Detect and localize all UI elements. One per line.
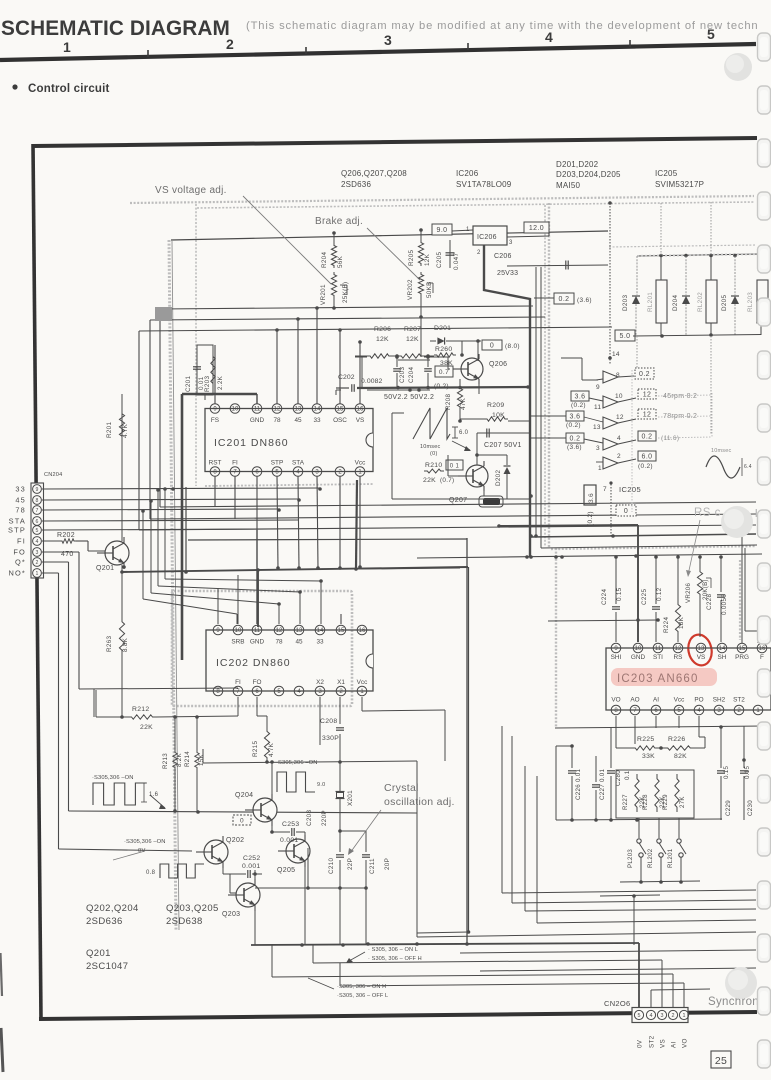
wire IC202 pin1 Vcc elbow [361, 697, 363, 711]
wire CN206 ST2 riser [650, 990, 652, 1008]
svg-text:(This schematic diagram may be: (This schematic diagram may be modified … [246, 20, 759, 32]
wire bus y331 [139, 327, 612, 331]
wire Q205 emitter down to y888 [304, 865, 306, 888]
svg-text:1: 1 [683, 1013, 686, 1019]
svg-text:IC206: IC206 [456, 169, 479, 178]
wire IC202 pin10 riser [237, 575, 239, 624]
wire C201 to IC201 pin9 [204, 395, 206, 400]
comparator IC205 triangle pin12 [603, 417, 618, 429]
svg-text:· S305, 306 – ON L: · S305, 306 – ON L [368, 947, 418, 953]
wire thick IC206 pin2 down [484, 245, 530, 557]
gray guide under IC201 [205, 484, 374, 486]
svg-text:4.7K: 4.7K [122, 423, 129, 438]
svg-text:C211: C211 [369, 858, 376, 874]
IC202 pin 15 [336, 625, 346, 635]
svg-text:VR206: VR206 [685, 583, 692, 603]
wire VR201 bottom [333, 298, 335, 309]
resistor R224 18K [677, 557, 679, 600]
svg-text:(0.2): (0.2) [571, 402, 586, 409]
svg-text:4: 4 [296, 470, 300, 476]
IC203 pin 13 VS [696, 643, 706, 653]
wire x417 drop [416, 761, 418, 937]
resistor box R227 R228 R229 [616, 770, 694, 818]
capacitor C280 0.1 [610, 728, 612, 768]
connector CN206 pin 4 ST2 [646, 1010, 655, 1019]
switch PL203 [638, 818, 640, 838]
wire CN204 pin7 78 [42, 509, 279, 510]
svg-text:1: 1 [63, 39, 71, 55]
IC202 pin 11 GND [252, 625, 262, 635]
svg-text:Vcc: Vcc [674, 697, 685, 704]
connector CN204 pin 8 45 [33, 496, 42, 505]
wire x634 drop [633, 896, 635, 945]
svg-text:STI: STI [653, 654, 663, 661]
svg-text:D201,D202: D201,D202 [556, 160, 599, 169]
wire x366 drop to bus [365, 888, 367, 944]
svg-text:(0.2): (0.2) [638, 463, 653, 470]
resistor R228 22K [655, 774, 659, 812]
gray guide line top [130, 196, 754, 203]
svg-text:Vcc: Vcc [355, 460, 366, 467]
wire triangle stubs [596, 379, 603, 380]
node y811 x198 [196, 810, 200, 814]
IC201 pin 2 [335, 467, 345, 477]
value box 9.0 [432, 224, 452, 235]
wire box input y416 [530, 415, 566, 417]
svg-text:8: 8 [213, 470, 217, 476]
svg-text:C225: C225 [641, 589, 648, 605]
svg-text:C210: C210 [328, 858, 335, 874]
wire vertical x536 [535, 267, 537, 536]
svg-text:ST2: ST2 [649, 1035, 656, 1048]
transistor Q201 [105, 541, 129, 565]
wire thick Q201 emitter rail y571 [121, 567, 468, 572]
svg-text:1: 1 [36, 571, 39, 577]
frame top border [33, 138, 757, 146]
transistor Q205 [286, 839, 310, 863]
IC203 pin 10 GND [633, 643, 643, 653]
svg-text:C227 0.01: C227 0.01 [599, 768, 606, 800]
node branch dot x173 [171, 487, 175, 491]
wire vertical x361 IC201 pin1 to IC202 [359, 476, 361, 568]
svg-text:Vcc: Vcc [357, 679, 368, 686]
diode D203 [636, 256, 638, 295]
svg-text:FO: FO [253, 679, 262, 686]
svg-text:0.1: 0.1 [624, 770, 631, 780]
wire IC206 to 12.0 corner [507, 236, 549, 237]
svg-text:RL201: RL201 [667, 848, 674, 868]
svg-text:C202: C202 [338, 374, 355, 381]
svg-text:5: 5 [277, 689, 281, 695]
IC203 pin 15 PRG [737, 643, 747, 653]
wire Q201 emitter node [122, 565, 126, 569]
wire IC202 top rail [211, 629, 369, 631]
svg-text:R215: R215 [252, 741, 259, 757]
svg-text:11: 11 [254, 407, 261, 413]
wire comp top rail y557 [417, 554, 762, 558]
svg-text:2: 2 [672, 1013, 675, 1019]
IC202 pin 4 [294, 686, 304, 696]
transistor Q206 [461, 358, 483, 380]
svg-text:2: 2 [226, 36, 234, 52]
svg-text:6.0: 6.0 [642, 454, 653, 461]
wire IC202 pin11 riser thick [256, 530, 258, 624]
resistor RL201 box [660, 256, 662, 280]
svg-text:14: 14 [612, 351, 620, 358]
svg-text:SRB: SRB [231, 639, 244, 646]
wire CN206 drop 0V [638, 943, 640, 1008]
wire staircase x151 [150, 500, 152, 593]
svg-text:45: 45 [295, 639, 303, 646]
svg-text:R207: R207 [404, 326, 421, 333]
svg-text:Crystal: Crystal [384, 782, 419, 794]
connector CN204 body [31, 483, 44, 578]
resistor RL203 box [757, 280, 768, 323]
svg-text:2.2K: 2.2K [217, 375, 224, 390]
svg-text:C252: C252 [243, 855, 260, 862]
svg-text:C253: C253 [282, 821, 299, 828]
connector CN206 pin 5 0V [634, 1010, 643, 1019]
svg-text:4: 4 [297, 689, 301, 695]
svg-text:2: 2 [36, 560, 39, 566]
svg-text:D204: D204 [672, 295, 679, 311]
svg-text:15: 15 [337, 407, 344, 413]
connector CN204 pin 6 STA [33, 517, 42, 526]
svg-text:5: 5 [707, 26, 715, 42]
wire IC202 pin3 X2 drop [319, 697, 321, 745]
svg-text:0 1: 0 1 [450, 464, 460, 470]
wire Q201 collector [123, 537, 125, 541]
node x356 y569 [354, 567, 358, 571]
svg-text:Q206: Q206 [489, 361, 507, 368]
connector CN206 pin 2 AI [668, 1010, 677, 1019]
potentiometer VR206 20K B [699, 557, 701, 568]
svg-text:9: 9 [36, 487, 39, 493]
svg-text:FI: FI [232, 460, 238, 467]
svg-text:0.15: 0.15 [744, 765, 751, 779]
svg-text:VO: VO [611, 697, 620, 704]
gray guide dark core x175 [172, 241, 179, 930]
IC202 pin 5 [274, 686, 284, 696]
svg-text:GND: GND [250, 639, 265, 646]
gray hatch on pin15 riser [739, 560, 741, 640]
svg-text:22K: 22K [423, 477, 436, 484]
svg-text:Q203: Q203 [222, 911, 240, 918]
wire ladder top rail y255 [637, 254, 760, 256]
svg-text:8.8K: 8.8K [122, 637, 129, 652]
svg-text:FI: FI [17, 537, 26, 546]
svg-text:FI: FI [235, 679, 241, 686]
svg-text:C230: C230 [747, 800, 754, 816]
wire IC201 pin12 riser [276, 331, 278, 404]
svg-text:56K: 56K [337, 255, 344, 268]
svg-text:AI: AI [653, 697, 659, 704]
IC203 pin 11 STI [653, 643, 663, 653]
arrow square wave to y811 [150, 795, 165, 808]
gray guide vertical left bus [169, 240, 176, 930]
svg-text:C207 50V1: C207 50V1 [484, 442, 522, 449]
svg-text:25: 25 [715, 1055, 727, 1067]
svg-text:C201: C201 [185, 376, 192, 392]
value box 12 78rpm [638, 409, 656, 419]
svg-text:C226 0.01: C226 0.01 [575, 768, 582, 800]
svg-text:ST2: ST2 [733, 697, 745, 704]
svg-text:3.6: 3.6 [575, 394, 586, 401]
IC201 pin 11 GND [252, 404, 262, 414]
IC201 pin 12 78 [272, 404, 282, 414]
potentiometer VR202 50KB [418, 272, 423, 296]
waveform sawtooth [413, 408, 450, 439]
wire IC206 output right [507, 265, 608, 266]
value box 3.6 row10 [571, 391, 589, 401]
svg-text:0: 0 [624, 508, 628, 515]
svg-text:CN2O6: CN2O6 [604, 999, 631, 1008]
wire bottom bus y971 [480, 968, 756, 971]
svg-text:X201: X201 [347, 790, 354, 806]
svg-text:2SD638: 2SD638 [166, 916, 203, 927]
svg-text:VS: VS [356, 417, 365, 424]
svg-text:3: 3 [661, 1013, 664, 1019]
value box 6.0 [638, 451, 656, 461]
wire mid band y530 [139, 525, 756, 530]
svg-text:7: 7 [233, 470, 237, 476]
svg-text:16: 16 [357, 407, 364, 413]
wire bracket y911 [525, 909, 756, 911]
svg-text:(0): (0) [430, 451, 438, 457]
svg-text:0V: 0V [637, 1039, 644, 1048]
svg-text:(0.7): (0.7) [440, 477, 454, 484]
switch RL201 [678, 818, 680, 838]
svg-text:12.0: 12.0 [529, 225, 544, 232]
resistor R208 47K [457, 385, 462, 410]
wire R206 row to Q206 [355, 356, 367, 358]
svg-text:5.0: 5.0 [620, 333, 631, 340]
wire IC201 pin7 drop to band [234, 476, 236, 519]
svg-text:·S305, 306 – ON H: ·S305, 306 – ON H [337, 984, 386, 990]
svg-text:15: 15 [338, 628, 345, 634]
capacitor C224 0.15 [615, 557, 617, 604]
svg-text:X1: X1 [337, 679, 345, 686]
value box 0.2 3.6 top [554, 293, 574, 304]
svg-text:PO: PO [694, 697, 703, 704]
svg-text:RL202: RL202 [697, 292, 704, 312]
wire IC201 pin interconnect line bottom [209, 471, 369, 473]
resistor R213 8.2K and R214 15K [174, 717, 176, 750]
svg-text:Q206,Q207,Q208: Q206,Q207,Q208 [341, 169, 407, 178]
svg-text:0: 0 [240, 818, 244, 825]
svg-text:13: 13 [698, 646, 705, 652]
diode D205 [734, 256, 736, 295]
svg-text:5: 5 [677, 708, 681, 714]
value box 0 ic205 [616, 505, 636, 516]
gray guide hatch x545 [544, 205, 546, 546]
resistor R215 4.7K [266, 716, 268, 727]
svg-text:IC205: IC205 [655, 169, 678, 178]
waveform sine 10msec [706, 456, 740, 478]
svg-text:11: 11 [655, 646, 662, 652]
svg-text:10: 10 [615, 393, 623, 400]
svg-text:7: 7 [603, 486, 607, 493]
svg-text:NO*: NO* [8, 569, 26, 578]
svg-text:VO: VO [682, 1038, 689, 1048]
svg-text:R224: R224 [663, 617, 670, 633]
connector CN206 pin 3 VS [657, 1010, 666, 1019]
svg-text:1: 1 [598, 465, 602, 472]
svg-text:0.12: 0.12 [656, 587, 663, 601]
svg-text:0.2: 0.2 [642, 434, 653, 441]
svg-text:R225: R225 [637, 736, 654, 743]
svg-text:C205: C205 [436, 252, 443, 268]
punch hole shadow top [724, 53, 752, 81]
svg-text:C228: C228 [706, 594, 713, 610]
svg-text:0.001: 0.001 [242, 863, 261, 870]
connector CN204 pin 9 33 [33, 485, 42, 494]
wire thick Q206 emitter rail y387 [357, 387, 530, 388]
IC202 pin 8 [213, 686, 223, 696]
wire Q206 base from VR202 column [420, 317, 422, 357]
node center crossing dots [529, 494, 533, 498]
svg-text:MAI50: MAI50 [556, 181, 580, 190]
svg-text:2SC1047: 2SC1047 [86, 961, 128, 972]
svg-text:330P: 330P [322, 735, 339, 742]
svg-text:IC206: IC206 [477, 234, 497, 241]
capacitor C226 0.01 [571, 746, 573, 768]
svg-text:Q205: Q205 [277, 867, 295, 874]
wire Q206 collector top [477, 341, 479, 361]
gray guide left of IC203 [555, 548, 557, 728]
IC201 pin 9 FS [210, 404, 220, 414]
svg-text:C229: C229 [725, 800, 732, 816]
svg-text:4: 4 [697, 708, 701, 714]
value box 3.6 row12 [566, 411, 584, 421]
svg-text:PRG: PRG [735, 654, 749, 661]
svg-text:0.8: 0.8 [146, 870, 156, 876]
connector CN204 pin 7 78 [33, 506, 42, 515]
svg-text:VS: VS [660, 1039, 667, 1048]
gray guide 78rpm row [658, 416, 712, 417]
svg-text:R227: R227 [622, 794, 629, 810]
svg-text:33K: 33K [642, 753, 655, 760]
svg-text:0.15: 0.15 [723, 765, 730, 779]
wire IC203 pin15 riser [741, 537, 743, 643]
svg-text:5: 5 [36, 528, 39, 534]
svg-text:2SD636: 2SD636 [86, 916, 123, 927]
svg-text:R202: R202 [57, 532, 75, 539]
node gray blob junction [155, 307, 172, 321]
ruler line [0, 44, 756, 60]
svg-text:PL203: PL203 [627, 849, 634, 868]
wire bottom bus y945 dark [251, 943, 639, 945]
IC201 pin 15 OSC [335, 404, 345, 414]
wire Q201 collector riser [123, 537, 125, 541]
svg-text:Q204: Q204 [235, 792, 253, 799]
svg-text:4: 4 [545, 29, 553, 45]
svg-text:6: 6 [654, 708, 658, 714]
svg-text:(3.6): (3.6) [577, 297, 592, 304]
svg-text:R204: R204 [321, 252, 328, 268]
IC203 pin 14 SH [717, 643, 727, 653]
wire y728 rail below IC203 [555, 726, 765, 728]
wire CN204 pin1 NO* [42, 572, 59, 574]
svg-text:15: 15 [739, 646, 746, 652]
IC202 pin 13 45 [294, 625, 304, 635]
gray guide hatch y548 right [551, 546, 756, 549]
wire CN204 pin5 STP [42, 529, 277, 530]
svg-text:3.6: 3.6 [588, 493, 595, 503]
wire staircase x165 [164, 488, 166, 579]
svg-text:2: 2 [737, 708, 741, 714]
value box 0.2 row8 [635, 368, 654, 379]
gray guide ladder row [609, 245, 756, 247]
value box 0 8.0 [482, 340, 502, 350]
svg-text:Q207: Q207 [449, 497, 467, 504]
svg-text:(3.6): (3.6) [567, 444, 582, 451]
wire mid band y519 [150, 514, 756, 519]
svg-text:0.7: 0.7 [439, 369, 449, 376]
svg-text:9.0: 9.0 [317, 782, 326, 788]
svg-text:SCHEMATIC DIAGRAM: SCHEMATIC DIAGRAM [1, 17, 230, 40]
svg-text:45rpm 0.2: 45rpm 0.2 [663, 393, 697, 400]
svg-text:0.2: 0.2 [570, 436, 581, 443]
IC202 pin 10 SRB [233, 625, 243, 635]
svg-text:1: 1 [358, 470, 362, 476]
wire R209 to Q207 collector [508, 420, 530, 422]
svg-text:12: 12 [643, 412, 652, 419]
svg-text:(0.2): (0.2) [566, 422, 581, 429]
svg-text:6.4: 6.4 [744, 464, 752, 470]
svg-text:CN204: CN204 [44, 472, 62, 478]
IC201 pin 10 [230, 404, 240, 414]
svg-text:SH2: SH2 [713, 697, 726, 704]
wire x469 drop [468, 567, 470, 932]
svg-text:VS voltage adj.: VS voltage adj. [155, 185, 227, 196]
svg-text:78: 78 [15, 506, 26, 515]
wire vertical x278 IC201 pin5 to IC202 [277, 476, 278, 569]
wire x362 link [361, 356, 363, 388]
svg-text:STP: STP [8, 526, 26, 535]
wire x556 branch [555, 746, 557, 820]
svg-text:Q202,Q204: Q202,Q204 [86, 903, 139, 914]
svg-text:(8.0): (8.0) [505, 343, 520, 350]
svg-text:50KB: 50KB [426, 281, 433, 298]
svg-text:2: 2 [338, 470, 342, 476]
value box 12.0 [524, 222, 549, 233]
switch RL202 [658, 818, 660, 838]
wire IC202 pin7 drop [237, 697, 239, 716]
svg-text:Q201: Q201 [86, 948, 111, 959]
wire IC203 GND drop [637, 525, 639, 642]
svg-text:78: 78 [273, 417, 281, 424]
leader line to Q202 [113, 851, 145, 860]
svg-text:·S305, 306 – OFF L: ·S305, 306 – OFF L [337, 993, 388, 999]
wire IC203 pin16 riser elbow [757, 631, 759, 643]
svg-text:IC201 DN860: IC201 DN860 [214, 437, 289, 449]
connector CN204 pin 2 Q* [33, 558, 42, 567]
resistor R204 56K [331, 243, 336, 268]
capacitor C225 0.12 [655, 557, 657, 604]
svg-text:R229: R229 [662, 794, 669, 810]
capacitor C206 [565, 261, 567, 270]
svg-text:SHI: SHI [611, 654, 622, 661]
transistor Q202 [204, 840, 228, 864]
svg-text:Q201: Q201 [96, 565, 114, 572]
svg-text:33: 33 [316, 639, 324, 646]
svg-text:13: 13 [593, 424, 601, 431]
svg-text:10: 10 [635, 646, 642, 652]
resistor R263 8.8K [121, 565, 123, 617]
svg-text:47K: 47K [460, 397, 467, 410]
svg-text:0.001: 0.001 [280, 837, 299, 844]
